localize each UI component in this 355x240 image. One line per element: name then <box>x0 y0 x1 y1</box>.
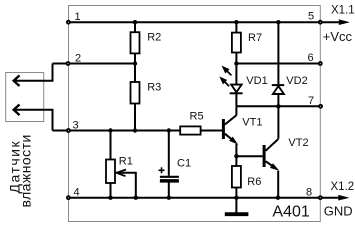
svg-text:VT1: VT1 <box>242 117 262 129</box>
svg-text:A401: A401 <box>272 204 309 221</box>
svg-text:R1: R1 <box>119 156 133 168</box>
svg-text:влажности: влажности <box>18 134 34 207</box>
svg-text:R7: R7 <box>248 32 262 44</box>
svg-text:8: 8 <box>306 186 312 198</box>
svg-text:R3: R3 <box>147 81 161 93</box>
svg-text:1: 1 <box>74 11 80 23</box>
svg-text:VD2: VD2 <box>286 75 307 87</box>
svg-text:VT2: VT2 <box>288 137 308 149</box>
svg-text:2: 2 <box>75 52 81 64</box>
svg-text:4: 4 <box>73 187 79 199</box>
svg-text:C1: C1 <box>177 158 191 170</box>
svg-text:5: 5 <box>308 11 314 23</box>
svg-text:R6: R6 <box>247 176 261 188</box>
svg-text:+Vcc: +Vcc <box>323 29 353 44</box>
svg-text:X1.1: X1.1 <box>331 5 355 17</box>
svg-text:VD1: VD1 <box>246 75 267 87</box>
svg-text:R5: R5 <box>190 111 204 123</box>
svg-text:3: 3 <box>72 119 78 131</box>
svg-text:7: 7 <box>308 95 314 107</box>
svg-text:6: 6 <box>307 52 313 64</box>
svg-text:R2: R2 <box>147 31 161 43</box>
svg-text:GND: GND <box>324 203 353 218</box>
svg-text:X1.2: X1.2 <box>331 181 355 193</box>
